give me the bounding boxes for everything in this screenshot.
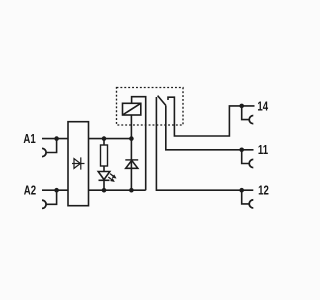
svg-text:A2: A2 xyxy=(24,184,36,197)
svg-text:14: 14 xyxy=(257,100,268,113)
svg-text:12: 12 xyxy=(258,184,269,197)
svg-text:A1: A1 xyxy=(23,133,35,146)
svg-text:11: 11 xyxy=(258,144,268,157)
